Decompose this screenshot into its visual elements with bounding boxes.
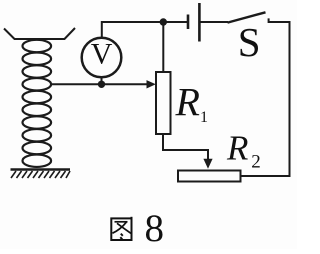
svg-text:R: R <box>175 80 200 125</box>
svg-text:V: V <box>91 37 113 70</box>
svg-text:R: R <box>226 129 248 168</box>
svg-text:8: 8 <box>145 207 165 249</box>
svg-text:2: 2 <box>251 152 260 173</box>
svg-text:1: 1 <box>200 109 208 126</box>
svg-text:S: S <box>238 19 261 65</box>
